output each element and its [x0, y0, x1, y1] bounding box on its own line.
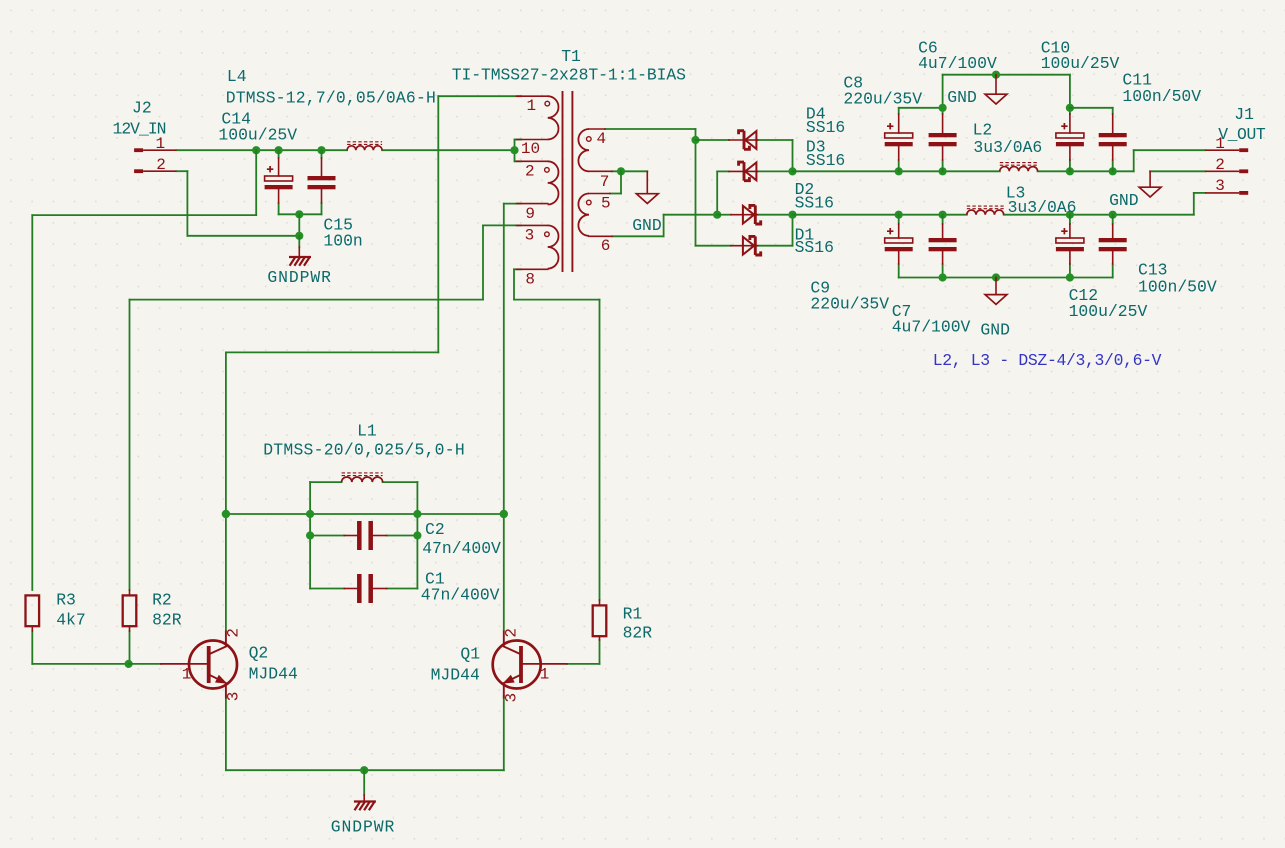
junction C2 left: [306, 531, 314, 539]
wire C7 top lead: [942, 215, 944, 224]
capacitor C14: [265, 150, 293, 203]
wire C9 top lead: [898, 215, 900, 224]
wire T1 pin7 node: [612, 170, 647, 172]
svg-text:V_OUT: V_OUT: [1218, 125, 1266, 144]
svg-text:3u3/0A6: 3u3/0A6: [1008, 198, 1077, 217]
junction C13 top: [1109, 211, 1117, 219]
svg-text:GND: GND: [632, 216, 662, 235]
wire C8 top lead: [899, 108, 943, 114]
wire C1 left: [310, 588, 344, 590]
svg-text:100n/50V: 100n/50V: [1122, 87, 1201, 106]
svg-text:GND: GND: [947, 88, 977, 107]
inductor L1: [342, 473, 383, 482]
svg-text:R2: R2: [152, 591, 172, 610]
pin number 2 J1: [1215, 156, 1225, 174]
connector J2 pin 1: [134, 148, 176, 152]
capacitor C10: [1056, 114, 1084, 160]
power GNDPWR bottom: [355, 795, 375, 809]
junction input rail at T1: [510, 146, 518, 154]
T1 winding 2 dot: [545, 168, 550, 173]
svg-text:L2: L2: [973, 120, 993, 139]
svg-text:L4: L4: [227, 67, 247, 86]
wire R3 bottom: [32, 631, 128, 664]
pin number 1 J2: [156, 135, 166, 153]
wire bottom gnd bus: [899, 264, 1113, 278]
wire C14/C15 bottom bus: [279, 203, 322, 214]
svg-text:220u/35V: 220u/35V: [810, 294, 889, 313]
label C8 value: [843, 89, 922, 108]
inductor L3: [967, 206, 1004, 215]
wire J1 pin2 to GND: [1150, 170, 1205, 172]
label D4 value: [806, 118, 845, 137]
resistor R2: [123, 590, 137, 631]
resistor R1: [593, 600, 607, 640]
svg-text:DTMSS-12,7/0,05/0A6-H: DTMSS-12,7/0,05/0A6-H: [226, 88, 436, 107]
wire C11 top lead: [1070, 108, 1113, 114]
label C10: [1041, 39, 1071, 58]
junction cap bottom: [295, 210, 303, 218]
label V_OUT: [1218, 125, 1266, 144]
svg-text:4u7/100V: 4u7/100V: [918, 54, 997, 73]
pin 5 T1: [601, 195, 611, 213]
wire C10 bottom lead: [1069, 160, 1071, 171]
svg-text:Q2: Q2: [249, 644, 269, 663]
pin 6 T1: [601, 237, 611, 255]
svg-text:7: 7: [600, 173, 610, 191]
wire output return rail: [793, 193, 1206, 215]
wire R1 bottom to Q1 base: [567, 640, 600, 664]
power GND J1: [1139, 171, 1161, 197]
label D3: [806, 138, 826, 157]
junction C8/C6 top: [939, 104, 947, 112]
label R2 value: [152, 610, 182, 629]
svg-text:J2: J2: [132, 99, 152, 118]
svg-text:SS16: SS16: [806, 151, 845, 170]
junction D2 left: [713, 211, 721, 219]
svg-text:2: 2: [503, 628, 521, 638]
wire C8 bottom lead: [898, 160, 900, 171]
wire GNDPWR bottom lead: [363, 770, 365, 795]
label 12V_IN: [113, 120, 166, 139]
label R2: [152, 591, 172, 610]
svg-text:MJD44: MJD44: [249, 665, 298, 684]
svg-text:L1: L1: [357, 421, 377, 440]
label L4: [227, 67, 247, 86]
wire J2 pin2 to GNDPWR: [177, 171, 300, 236]
wire node A left column: [32, 150, 256, 590]
wire R2 bottom: [129, 631, 131, 664]
label C13: [1138, 261, 1168, 280]
svg-text:2: 2: [156, 156, 166, 174]
label D3 value: [806, 151, 845, 170]
wire C13 top lead: [1112, 215, 1114, 224]
svg-text:10: 10: [521, 140, 540, 158]
svg-text:12V_IN: 12V_IN: [113, 120, 166, 139]
pin 1 Q2: [182, 665, 192, 683]
label C2 value: [422, 539, 501, 558]
label C13 value: [1138, 278, 1217, 297]
label C7 value: [892, 318, 971, 337]
svg-text:100u/25V: 100u/25V: [1069, 302, 1148, 321]
capacitor C6: [929, 114, 957, 160]
T1 winding 1 dot: [545, 101, 550, 106]
pin 9 T1: [525, 205, 535, 223]
svg-text:R3: R3: [56, 591, 76, 610]
label L1: [357, 421, 377, 440]
svg-text:1: 1: [540, 665, 550, 683]
svg-text:2: 2: [525, 162, 535, 180]
junction C9 top: [895, 211, 903, 219]
junction C12 bottom: [1066, 273, 1074, 281]
svg-text:47n/400V: 47n/400V: [422, 539, 501, 558]
pin 1 T1: [527, 97, 537, 115]
label Q1 value: [431, 666, 480, 685]
wire output positive rail: [793, 150, 1206, 171]
T1 winding 4 dot: [587, 137, 592, 142]
wire D2 row: [717, 214, 792, 216]
pin number 2 J2: [156, 156, 166, 174]
capacitor C2: [344, 521, 386, 550]
svg-text:3: 3: [225, 692, 243, 702]
junction C15 top: [317, 146, 325, 154]
wire C11 bottom lead: [1112, 160, 1114, 171]
capacitor C13: [1099, 224, 1127, 264]
wire Q2 base: [129, 663, 161, 665]
wire T1 pin6 route: [612, 215, 717, 237]
wire pin7 to pin5: [610, 171, 621, 193]
capacitor C7: [929, 224, 957, 264]
label D1: [795, 225, 815, 244]
label J1: [1234, 105, 1254, 124]
junction tank left: [222, 510, 230, 518]
label C15 value: [323, 232, 362, 251]
power GND T1: [636, 171, 658, 203]
wire D3 row: [717, 171, 792, 214]
svg-text:SS16: SS16: [806, 118, 845, 137]
capacitor C9: [885, 224, 913, 264]
svg-text:82R: 82R: [623, 624, 653, 643]
label GND bottom: [980, 321, 1010, 340]
label L1 value: [263, 441, 465, 460]
T1 winding 2-9: [517, 161, 559, 204]
wire gnd drop: [298, 214, 300, 236]
capacitor C1: [344, 574, 386, 603]
label C7: [892, 302, 912, 321]
inductor L4: [347, 142, 382, 150]
diode D2: [731, 205, 761, 224]
label R3: [56, 591, 76, 610]
diode D1: [731, 236, 761, 255]
label R1 value: [623, 624, 653, 643]
note L2 L3: [933, 351, 1162, 370]
wire Q2 emitter: [225, 696, 227, 770]
transistor Q2: [161, 631, 237, 699]
diode D3: [729, 162, 758, 181]
svg-text:MJD44: MJD44: [431, 666, 480, 685]
junction C8 bottom: [895, 167, 903, 175]
wire C12 bottom lead: [1069, 264, 1071, 278]
wire L1 top right: [383, 481, 418, 483]
junction frame left: [306, 510, 314, 518]
label GNDPWR bottom: [331, 817, 395, 836]
svg-text:82R: 82R: [152, 610, 182, 629]
svg-text:100n: 100n: [323, 232, 362, 251]
svg-text:220u/35V: 220u/35V: [843, 89, 922, 108]
junction C7 bottom: [939, 273, 947, 281]
svg-text:2: 2: [225, 628, 243, 638]
label D4: [806, 104, 826, 123]
label R3 value: [56, 610, 86, 629]
wire top gnd bus: [943, 74, 1070, 76]
label T1: [561, 47, 581, 66]
svg-text:L2, L3 - DSZ-4/3,3/0,6-V: L2, L3 - DSZ-4/3,3/0,6-V: [933, 351, 1162, 370]
T1 winding 3-8: [517, 225, 559, 269]
svg-text:TI-TMSS27-2x28T-1:1-BIAS: TI-TMSS27-2x28T-1:1-BIAS: [452, 66, 686, 85]
wire stub pin2: [515, 160, 522, 162]
pin 10 T1: [521, 140, 540, 158]
wire C2 right: [387, 535, 418, 537]
pin 3 T1: [525, 227, 535, 245]
capacitor C8: [885, 114, 913, 160]
svg-text:SS16: SS16: [795, 238, 834, 257]
capacitor C12: [1056, 224, 1084, 264]
wire D4 row: [696, 140, 793, 171]
svg-text:GND: GND: [980, 321, 1010, 340]
pin 2 T1: [525, 162, 535, 180]
T1 winding 1-10: [517, 96, 559, 139]
label L3: [1006, 183, 1026, 202]
wire T1 pin3 to R2: [130, 225, 522, 590]
label C1 value: [421, 585, 500, 604]
label D2 value: [795, 194, 834, 213]
wire tank frame right: [416, 482, 418, 588]
junction input rail left: [252, 146, 260, 154]
label C12 value: [1069, 302, 1148, 321]
label C14: [221, 109, 251, 128]
label C1: [425, 570, 445, 589]
capacitor C11: [1099, 114, 1127, 160]
connector J2 pin 2: [134, 169, 176, 173]
svg-text:100u/25V: 100u/25V: [218, 126, 297, 145]
svg-text:100n/50V: 100n/50V: [1138, 278, 1217, 297]
pin 3 Q2: [225, 692, 243, 702]
pin 3 Q1: [503, 693, 521, 703]
label J2: [132, 99, 152, 118]
pin number 3 J1: [1215, 177, 1225, 195]
svg-text:8: 8: [525, 271, 535, 289]
label C14 value: [218, 126, 297, 145]
label L2 value: [973, 138, 1042, 157]
wire C10 top lead: [1069, 75, 1071, 114]
junction C11 bottom: [1109, 167, 1117, 175]
wire tank horizontal: [226, 513, 504, 515]
wire L1 top left: [310, 481, 342, 483]
svg-text:4k7: 4k7: [56, 610, 86, 629]
power GND top: [985, 75, 1007, 104]
pin 2 Q1: [503, 628, 521, 638]
T1 winding 4-7: [578, 129, 612, 171]
svg-text:T1: T1: [561, 47, 581, 66]
svg-text:3: 3: [525, 227, 535, 245]
wire T1 pin9 to Q1 collector: [504, 204, 521, 630]
svg-text:3u3/0A6: 3u3/0A6: [973, 138, 1042, 157]
wire C6 top lead: [942, 75, 944, 114]
T1 winding 5-6: [578, 194, 612, 237]
label C9 value: [810, 294, 889, 313]
junction C12 top: [1066, 211, 1074, 219]
svg-text:3: 3: [503, 693, 521, 703]
wire C1 right: [387, 588, 418, 590]
label GND T1: [632, 216, 662, 235]
label L3 value: [1008, 198, 1077, 217]
junction frame right: [413, 510, 421, 518]
connector J1 pin 3: [1205, 191, 1248, 195]
label D1 value: [795, 238, 834, 257]
label Q2: [249, 644, 269, 663]
transformer T1 core: [563, 91, 573, 272]
svg-text:100u/25V: 100u/25V: [1041, 54, 1120, 73]
junction gnd node: [295, 232, 303, 240]
svg-text:C2: C2: [425, 520, 445, 539]
capacitor C15: [308, 150, 336, 203]
junction D4 left: [691, 136, 699, 144]
connector J1 pin 2: [1205, 169, 1248, 173]
label C6 value: [918, 54, 997, 73]
svg-text:J1: J1: [1234, 105, 1254, 124]
junction D3 right: [788, 167, 796, 175]
svg-text:9: 9: [525, 205, 535, 223]
diode D4: [729, 131, 758, 150]
pin 1 Q1: [540, 665, 550, 683]
resistor R3: [26, 595, 40, 631]
junction C10 bottom: [1066, 167, 1074, 175]
power GNDPWR input: [290, 247, 310, 265]
svg-text:1: 1: [182, 665, 192, 683]
svg-text:4: 4: [597, 130, 607, 148]
label C15: [323, 216, 353, 235]
label GND top: [947, 88, 977, 107]
power GND bottom: [985, 278, 1007, 305]
label Q2 value: [249, 665, 298, 684]
wire C6 bottom lead: [942, 160, 944, 171]
junction Q2 base node: [125, 660, 133, 668]
svg-text:3: 3: [1215, 177, 1225, 195]
wire T1 pin1 to Q2 collector: [226, 96, 521, 630]
T1 winding 3 dot: [545, 232, 550, 237]
label D2: [795, 180, 815, 199]
pin 7 T1: [600, 173, 610, 191]
svg-text:4u7/100V: 4u7/100V: [892, 318, 971, 337]
pin 4 T1: [597, 130, 607, 148]
svg-text:DTMSS-20/0,025/5,0-H: DTMSS-20/0,025/5,0-H: [263, 441, 465, 460]
label C11 value: [1122, 87, 1201, 106]
label GND J1: [1109, 191, 1139, 210]
label C2: [425, 520, 445, 539]
connector J1 pin 1: [1205, 148, 1248, 152]
junction emitter rail: [360, 766, 368, 774]
svg-text:Q1: Q1: [460, 645, 480, 664]
label Q1: [460, 645, 480, 664]
wire Q1 emitter: [503, 696, 505, 770]
label T1 value: [452, 66, 686, 85]
label GNDPWR input: [267, 268, 331, 287]
label C8: [843, 74, 863, 93]
junction tank right: [500, 510, 508, 518]
junction C2 right: [413, 531, 421, 539]
label C12: [1069, 286, 1099, 305]
svg-text:SS16: SS16: [795, 194, 834, 213]
wire GNDPWR lead: [298, 236, 300, 247]
label R1: [623, 604, 643, 623]
junction C7 top: [939, 211, 947, 219]
wire C12 top lead: [1069, 215, 1071, 224]
svg-text:2: 2: [1215, 156, 1225, 174]
svg-text:1: 1: [527, 97, 537, 115]
svg-text:GNDPWR: GNDPWR: [331, 817, 395, 836]
label C10 value: [1041, 54, 1120, 73]
T1 winding 5 dot: [587, 200, 592, 205]
label L4 value: [226, 88, 436, 107]
wire tank frame left: [309, 482, 311, 588]
svg-text:6: 6: [601, 237, 611, 255]
label C6: [918, 39, 938, 58]
pin 8 T1: [525, 271, 535, 289]
junction pin7: [617, 167, 625, 175]
wire emitter rail: [226, 769, 504, 771]
svg-text:GND: GND: [1109, 191, 1139, 210]
junction bottom gnd: [992, 273, 1000, 281]
svg-text:5: 5: [601, 195, 611, 213]
label L2: [973, 120, 993, 139]
junction top gnd: [992, 71, 1000, 79]
wire T1 pin8 to R1: [514, 269, 600, 600]
pin number 1 J1: [1215, 135, 1225, 153]
wire T1 pin4 to diodes: [605, 129, 696, 246]
label C9: [810, 278, 830, 297]
transistor Q1: [493, 631, 567, 699]
junction C10/C11 top: [1066, 104, 1074, 112]
pin 2 Q2: [225, 628, 243, 638]
wire C2 left: [310, 535, 344, 537]
junction D2 right: [788, 211, 796, 219]
wire T1 pin10-pin2 link vertical: [514, 140, 516, 162]
junction C6 bottom: [939, 167, 947, 175]
svg-text:47n/400V: 47n/400V: [421, 585, 500, 604]
wire D1 row: [696, 215, 793, 246]
wire 12V input rail: [177, 149, 515, 151]
label C11: [1122, 71, 1152, 90]
junction C14 top: [275, 146, 283, 154]
wire stub pin10: [515, 139, 522, 141]
wire C7 bottom lead: [942, 264, 944, 278]
svg-text:R1: R1: [623, 604, 643, 623]
svg-text:GNDPWR: GNDPWR: [267, 268, 331, 287]
inductor L2: [1000, 163, 1038, 172]
